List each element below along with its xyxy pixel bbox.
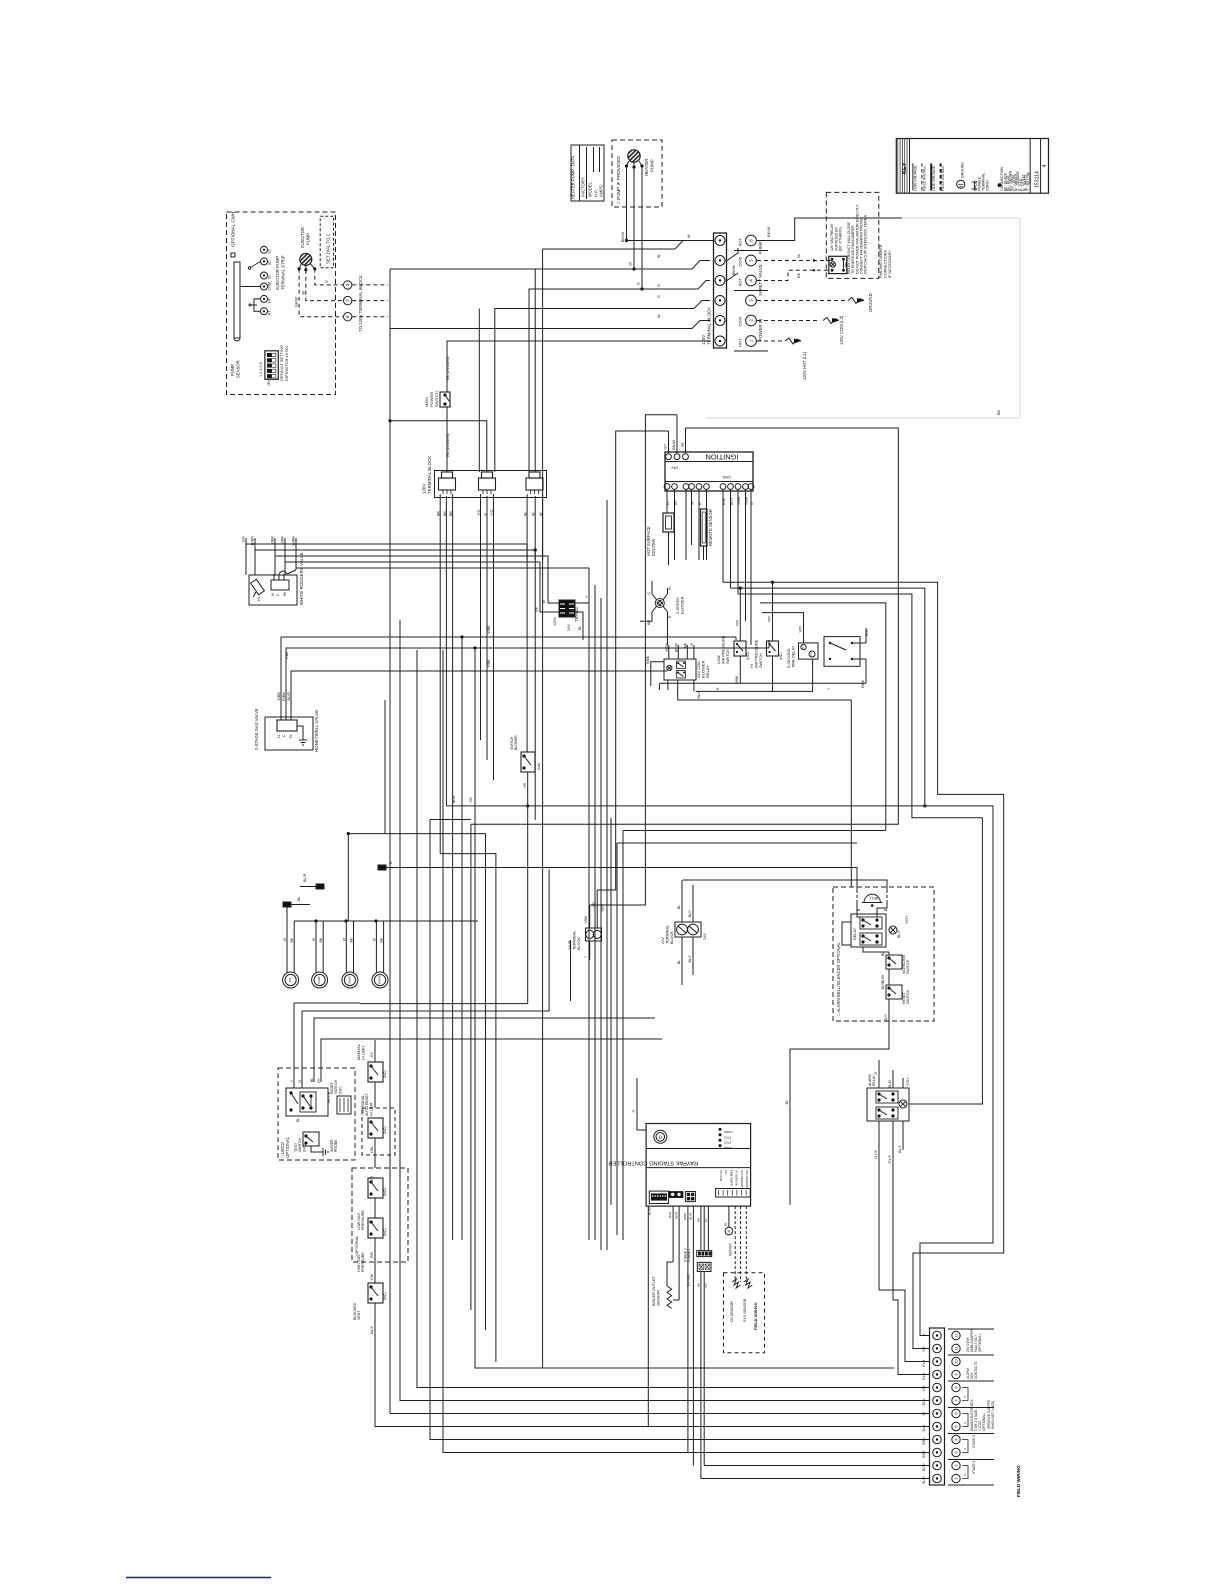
- svg-text:120V COM (L2): 120V COM (L2): [839, 315, 844, 345]
- svg-text:HT: HT: [268, 310, 272, 316]
- svg-text:BL/V: BL/V: [922, 1398, 926, 1406]
- svg-text:O: O: [963, 1396, 967, 1398]
- svg-text:GY: GY: [704, 1283, 708, 1287]
- stage plug 2: [697, 1262, 711, 1271]
- svg-text:BL: BL: [297, 896, 301, 901]
- 120V terminal block strip: [714, 233, 727, 348]
- svg-text:BL/Y: BL/Y: [697, 690, 701, 698]
- ignition bottom wires: [666, 489, 668, 513]
- svg-text:PROBE: PROBE: [334, 1139, 338, 1152]
- svg-text:120V: 120V: [422, 484, 427, 494]
- svg-text:□ ALARM BELL/SILENCER OPTIONAL: □ ALARM BELL/SILENCER OPTIONAL: [836, 942, 841, 1016]
- wire alarm box BL down run: [790, 1021, 889, 1205]
- controller dip switch: [649, 1191, 668, 1203]
- wire safety valve BK/W jumper: [727, 248, 738, 261]
- svg-text:GY: GY: [370, 1051, 374, 1057]
- svg-text:BL/Y: BL/Y: [688, 909, 692, 917]
- stage plug wires upper: [700, 1206, 702, 1251]
- field dashed wire terminal 5 to relay: [757, 260, 832, 262]
- svg-text:CONN: CONN: [986, 180, 990, 191]
- CWH terminal strip circles: [261, 246, 268, 253]
- svg-text:BL: BL: [785, 1100, 789, 1104]
- LWCO input wires: [293, 1068, 295, 1088]
- svg-text:SENSOR: SENSOR: [657, 1290, 661, 1306]
- svg-text:BELL: BELL: [869, 896, 878, 900]
- controller left wire: [637, 1078, 646, 1130]
- svg-text:FAN AND DAMPER: FAN AND DAMPER: [879, 244, 883, 278]
- svg-text:R: R: [698, 502, 702, 505]
- boiler sensor wires: [672, 1206, 674, 1262]
- svg-text:LINE VOLTAGE: LINE VOLTAGE: [932, 165, 936, 191]
- svg-text:KEY: KEY: [902, 162, 908, 174]
- svg-text:V/BR: V/BR: [737, 496, 741, 505]
- wire blocked vent to terminal 5: [375, 1303, 930, 1427]
- field terminal strip: [930, 1328, 945, 1485]
- svg-text:1 2 3 4 5: 1 2 3 4 5: [259, 362, 263, 377]
- svg-text:Y/BK: Y/BK: [285, 651, 289, 660]
- svg-text:REMOTE SENSOR: REMOTE SENSOR: [708, 509, 713, 546]
- time delay wires: [762, 613, 804, 643]
- svg-text:BL: BL: [677, 960, 681, 964]
- svg-text:Y/GY: Y/GY: [601, 903, 605, 912]
- low gas pressure switch: [368, 1178, 383, 1198]
- plug connector: [439, 478, 456, 490]
- wire to terminal 2: [704, 1465, 929, 1467]
- svg-text:INJECTOR PUMP: INJECTOR PUMP: [275, 256, 280, 290]
- svg-text:TERMINAL: TERMINAL: [572, 931, 576, 950]
- svg-text:W: W: [301, 291, 305, 295]
- 5-second time delay box: [799, 643, 819, 659]
- svg-text:COM: COM: [738, 317, 743, 326]
- svg-text:Y/GY: Y/GY: [905, 915, 909, 924]
- svg-text:V/BK: V/BK: [281, 536, 285, 545]
- svg-text:R/R: R/R: [370, 1251, 374, 1257]
- time delay COM wire: [773, 659, 813, 691]
- wire pump BKW to terminal6 line: [625, 240, 714, 242]
- silencing switch: [886, 955, 902, 969]
- left tall verticals: [384, 700, 386, 834]
- svg-text:3: 3: [749, 299, 754, 302]
- svg-text:SWITCH: SWITCH: [434, 391, 439, 407]
- svg-text:HSI: HSI: [288, 978, 292, 983]
- svg-text:BL/W: BL/W: [922, 1464, 926, 1472]
- terminal 2 strip circle: [715, 316, 725, 326]
- svg-text:V/BK: V/BK: [487, 625, 491, 634]
- svg-text:G: G: [636, 282, 641, 285]
- svg-text:BL: BL: [681, 442, 685, 447]
- svg-text:BK: BK: [380, 937, 384, 942]
- svg-text:W: W: [691, 501, 695, 505]
- svg-text:DATA: DATA: [571, 155, 576, 166]
- light SPARE: [372, 972, 388, 988]
- alarm relay box: [867, 1088, 909, 1121]
- svg-text:O: O: [963, 1448, 967, 1450]
- svg-text:OPTIONAL: OPTIONAL: [285, 1136, 290, 1158]
- O4 sensor squiggle: [732, 1279, 741, 1288]
- svg-text:STAGE 2: STAGE 2: [972, 1435, 976, 1448]
- LWCO test switch: [303, 1132, 319, 1146]
- relay contact A: [677, 661, 686, 669]
- ignition top wires: [668, 431, 670, 453]
- relay contact B: [677, 671, 686, 679]
- 2-speed blower motor: [655, 599, 664, 608]
- svg-text:BK: BK: [443, 510, 447, 516]
- wire trunk Y637: [299, 636, 736, 638]
- svg-text:HONEYWELL VALVE: HONEYWELL VALVE: [314, 710, 319, 752]
- svg-text:FIELD INSTALL: FIELD INSTALL: [923, 166, 927, 192]
- wire cluster verticals: [542, 249, 544, 1368]
- wire trunk Y648: [318, 647, 769, 649]
- svg-text:G: G: [657, 284, 661, 287]
- wire X390 long trunk: [389, 329, 391, 1414]
- wire cluster verticals mid: [588, 568, 590, 1240]
- svg-text:R/W: R/W: [865, 629, 869, 636]
- svg-text:6: 6: [345, 315, 350, 318]
- drawing number cell: [1029, 139, 1031, 194]
- valve terminal strip: [271, 580, 289, 590]
- wire G loop riser 885: [760, 603, 886, 831]
- svg-text:R/BK: R/BK: [683, 1213, 687, 1220]
- wire alarm contacts to terminal 10: [879, 1160, 930, 1362]
- svg-text:10: 10: [954, 1359, 959, 1364]
- wire ignition BNW staircase: [590, 415, 677, 905]
- svg-text:HI: HI: [257, 597, 261, 601]
- field dashed wire terminal 2 com: [757, 320, 820, 322]
- M heater circle: [725, 1227, 733, 1235]
- svg-text:SWITCH: SWITCH: [726, 649, 730, 664]
- strip terminal 1: [933, 1474, 942, 1483]
- svg-text:(NO): (NO): [746, 652, 750, 660]
- auto reset hi limit dashed box: [362, 1108, 395, 1155]
- svg-text:(NC): (NC): [779, 652, 783, 660]
- svg-text:COM: COM: [268, 282, 272, 290]
- svg-text:HOT: HOT: [738, 238, 743, 247]
- svg-text:BK: BK: [697, 1218, 701, 1222]
- svg-text:PUMP: PUMP: [650, 159, 655, 172]
- svg-text:24V: 24V: [567, 624, 571, 631]
- svg-text:GY/Y: GY/Y: [922, 1372, 926, 1380]
- svg-text:W: W: [532, 512, 536, 516]
- jumper arcs: [962, 1388, 968, 1401]
- svg-text:(NO): (NO): [537, 763, 541, 770]
- svg-text:Y/GY: Y/GY: [906, 1077, 910, 1086]
- svg-text:HI LIMIT: HI LIMIT: [361, 1045, 365, 1060]
- wire long H806 bus: [446, 806, 993, 1336]
- svg-text:STG1: STG1: [724, 1135, 732, 1139]
- wire right loop RL2 to terminal 12: [731, 588, 925, 806]
- pump sensor probe: [234, 262, 240, 338]
- svg-text:V/G: V/G: [242, 536, 246, 543]
- svg-text:W: W: [524, 512, 528, 516]
- svg-text:COM: COM: [738, 257, 743, 266]
- svg-text:BL: BL: [310, 1078, 314, 1082]
- relay bottom outputs: [667, 680, 669, 690]
- svg-text:STG2: STG2: [724, 1141, 732, 1145]
- set dial to 1 dashed box: [320, 216, 333, 268]
- svg-text:M: M: [727, 1229, 730, 1233]
- wire to terminal 4: [430, 820, 930, 1440]
- trans primary wires: [548, 602, 559, 604]
- terminal 4 strip circle: [715, 276, 725, 286]
- svg-text:RELAY: RELAY: [853, 927, 857, 940]
- LWCO reset switch: [337, 1096, 351, 1114]
- 24 VAC stage wires: [687, 1206, 689, 1452]
- field dashed wire terminal 3 ground: [757, 300, 845, 302]
- wire faint top right loop: [706, 218, 1020, 418]
- svg-text:BK: BK: [449, 510, 453, 516]
- wire terminal 6 to relay feed: [757, 218, 902, 241]
- svg-text:FIELD INSTALL: FIELD INSTALL: [941, 166, 945, 192]
- svg-text:GROUND: GROUND: [961, 162, 965, 178]
- svg-text:Y/G: Y/G: [469, 797, 473, 803]
- O4 SYS sensor dashed box: [724, 1273, 765, 1353]
- blower wires: [651, 581, 653, 594]
- svg-text:HI LIMIT: HI LIMIT: [369, 1101, 373, 1116]
- wire H833 corner down: [485, 834, 487, 1330]
- svg-text:24V: 24V: [703, 933, 707, 940]
- svg-text:153114: 153114: [1035, 171, 1041, 188]
- svg-text:FACTORY: FACTORY: [581, 177, 586, 197]
- svg-text:BK/R: BK/R: [675, 1211, 679, 1219]
- svg-text:V/BK: V/BK: [271, 536, 275, 545]
- svg-text:(OPTIONAL): (OPTIONAL): [982, 1413, 986, 1431]
- wire terminal6 staircase: [543, 241, 710, 250]
- wire X390 to terminal 6: [390, 1413, 930, 1415]
- light risers: [286, 907, 288, 940]
- svg-text:O: O: [963, 1474, 967, 1476]
- svg-text:GND: GND: [722, 475, 731, 479]
- 24VR terminal block: [586, 928, 602, 941]
- svg-text:□ PUMP IF PROVIDED: □ PUMP IF PROVIDED: [616, 155, 621, 204]
- raypak logo: [654, 1130, 667, 1143]
- svg-text:SWITCHES AT INTERLOCK TERMS.: SWITCHES AT INTERLOCK TERMS.: [864, 214, 868, 274]
- wire trunk Y671: [326, 670, 667, 672]
- strip terminal 12: [933, 1331, 942, 1340]
- svg-text:SWITCH: SWITCH: [906, 959, 910, 974]
- wire gas valve feeds: [281, 637, 299, 694]
- svg-text:BK: BK: [319, 937, 323, 942]
- svg-text:O: O: [666, 502, 670, 505]
- blue underline bottom left: [126, 1577, 271, 1579]
- svg-text:GY: GY: [317, 1077, 321, 1083]
- LWCO relay box: [286, 1088, 328, 1116]
- strip terminal 3: [933, 1448, 942, 1457]
- svg-text:BL/Y: BL/Y: [884, 1013, 888, 1021]
- svg-text:HI: HI: [750, 664, 754, 668]
- svg-text:R/BK: R/BK: [922, 1437, 926, 1445]
- svg-text:WHEN NOT USED): WHEN NOT USED): [991, 1401, 995, 1429]
- ignition module box: [665, 452, 753, 491]
- svg-text:HT: HT: [268, 297, 272, 303]
- CWH com wire to probe: [240, 286, 261, 288]
- svg-text:G: G: [750, 502, 754, 505]
- wire main switch to block: [446, 407, 448, 472]
- svg-text:IGNITER: IGNITER: [651, 539, 656, 556]
- alarm bell silencer dashed box: [833, 887, 934, 1021]
- svg-text:(OPTIONAL): (OPTIONAL): [978, 1334, 982, 1352]
- svg-text:W: W: [657, 254, 661, 258]
- remote sensor: [701, 509, 708, 546]
- svg-text:(NC): (NC): [383, 1292, 387, 1300]
- svg-text:R/V: R/V: [768, 615, 772, 621]
- stage plug 1: [697, 1251, 712, 1257]
- svg-text:O4 SENSOR: O4 SENSOR: [735, 1170, 739, 1186]
- trans secondary wires: [575, 585, 589, 603]
- svg-text:GY/Y: GY/Y: [874, 1149, 878, 1158]
- svg-text:BLOWER: BLOWER: [680, 597, 685, 614]
- strip terminal 8: [933, 1383, 942, 1392]
- svg-text:BL: BL: [677, 905, 681, 909]
- svg-text:AIR PRESSURE: AIR PRESSURE: [721, 635, 725, 664]
- hi air pressure switch: [767, 641, 779, 656]
- svg-text:(BY OTHERS): (BY OTHERS): [839, 227, 843, 251]
- svg-text:HI: HI: [289, 735, 293, 738]
- svg-text:BL/R: BL/R: [922, 1476, 926, 1484]
- wire H824 BL return corner: [470, 824, 472, 1310]
- svg-text:PRESSURE: PRESSURE: [361, 1210, 365, 1230]
- fuse 2: [316, 884, 324, 889]
- svg-text:G: G: [298, 1080, 302, 1083]
- svg-text:BL/R: BL/R: [689, 1212, 693, 1220]
- svg-text:BK: BK: [796, 272, 801, 278]
- svg-text:BK: BK: [674, 500, 678, 505]
- svg-text:MANUAL: MANUAL: [357, 1044, 361, 1060]
- svg-text:(NC): (NC): [383, 1228, 387, 1236]
- labeled terminal circles: [746, 235, 757, 246]
- svg-text:BN: BN: [647, 619, 651, 624]
- legend ground symbol: [957, 180, 965, 188]
- 120V terminal block connectors: [435, 471, 547, 498]
- wire X549 X570 risers: [548, 870, 550, 1012]
- svg-text:2: 2: [749, 319, 754, 322]
- boiler outlet sensor: [667, 1286, 672, 1308]
- svg-text:R/W: R/W: [668, 1212, 672, 1218]
- svg-text:GROUND: GROUND: [868, 293, 873, 312]
- low air pressure switch: [734, 641, 746, 656]
- wire terminal2 staircase long: [390, 321, 710, 329]
- wire fuse R run to bell: [400, 868, 857, 891]
- svg-text:BK/W: BK/W: [620, 232, 625, 242]
- wire X462 X475 runs: [461, 637, 463, 1240]
- wire terminal5 staircase: [390, 261, 710, 270]
- svg-text:R: R: [389, 861, 393, 864]
- svg-text:TERMINAL BLOCK: TERMINAL BLOCK: [707, 307, 712, 345]
- wire branch to middle plug: [390, 421, 487, 472]
- wire to terminal 7: [400, 690, 930, 1401]
- svg-text:BLOCK: BLOCK: [577, 937, 581, 950]
- svg-text:HOT: HOT: [738, 278, 743, 287]
- svg-text:(NC): (NC): [338, 1086, 342, 1094]
- svg-text:HEATER PUMP: HEATER PUMP: [571, 169, 576, 199]
- svg-text:GY: GY: [704, 1218, 708, 1222]
- svg-text:BL: BL: [296, 1118, 300, 1122]
- svg-text:S3: S3: [268, 249, 272, 253]
- svg-text:Y/R: Y/R: [523, 782, 527, 788]
- svg-text:WHITE-RODGERS VALVE: WHITE-RODGERS VALVE: [299, 552, 304, 605]
- svg-text:24 VAC: 24 VAC: [686, 1274, 690, 1287]
- svg-text:V/BK: V/BK: [277, 692, 281, 701]
- svg-text:R/W: R/W: [722, 497, 726, 505]
- svg-text:HI: HI: [668, 587, 672, 590]
- valve coil symbol: [251, 579, 265, 594]
- wire to terminal 8: [417, 693, 930, 1388]
- svg-text:Y/G: Y/G: [490, 509, 494, 516]
- light HSI: [283, 972, 299, 988]
- wire terminal3 staircase: [495, 301, 710, 473]
- svg-text:W: W: [687, 234, 691, 238]
- svg-text:Y/G: Y/G: [477, 509, 481, 516]
- main power switch: [440, 392, 450, 407]
- auto reset hi limit switch: [368, 1118, 383, 1138]
- svg-text:BK: BK: [697, 1283, 701, 1287]
- wire ignition GY staircase: [597, 431, 668, 890]
- svg-text:Y/R: Y/R: [370, 1175, 374, 1181]
- strip terminal 4: [933, 1435, 942, 1444]
- wire WR valve runs right: [246, 538, 527, 544]
- valve wires up: [245, 538, 247, 570]
- svg-text:BL: BL: [578, 626, 582, 630]
- bell symbol: [864, 894, 880, 902]
- svg-text:5-SECOND: 5-SECOND: [787, 648, 791, 668]
- svg-text:BK: BK: [437, 510, 441, 516]
- controller bottom wires BLW: [647, 1206, 649, 1426]
- svg-text:RAYPAK STAGING CONTROLLER: RAYPAK STAGING CONTROLLER: [609, 1160, 698, 1166]
- svg-text:BK/W: BK/W: [295, 297, 299, 307]
- svg-text:BL/Y: BL/Y: [922, 1424, 926, 1432]
- relay dashed box 120VAC: [826, 192, 879, 278]
- svg-text:BOILER OUTLET: BOILER OUTLET: [652, 1275, 656, 1306]
- switch riser wires RV: [739, 588, 741, 641]
- ignition bottom terminals: [664, 484, 670, 490]
- svg-text:BL/Y: BL/Y: [897, 930, 901, 938]
- light PUMP: [312, 972, 328, 988]
- wire alarm box left feeds: [610, 818, 612, 1205]
- svg-text:SYS SENSOR: SYS SENSOR: [743, 1298, 747, 1322]
- svg-text:BL/R: BL/R: [303, 873, 307, 882]
- wire to terminal 1: [701, 1478, 930, 1480]
- heater pump dashed box: [612, 140, 662, 207]
- svg-text:HEATER: HEATER: [729, 1243, 733, 1256]
- wire into manual hi limit: [374, 1040, 376, 1062]
- svg-text:(NO): (NO): [383, 1188, 387, 1196]
- wire ignition BL to right loop: [471, 428, 898, 824]
- svg-text:TIME DELAY: TIME DELAY: [791, 645, 795, 668]
- svg-text:W: W: [628, 262, 633, 266]
- field dashed wire terminal 1 hot: [757, 340, 782, 342]
- relay coil and contacts: [829, 256, 847, 273]
- svg-text:TERMINAL STRIP: TERMINAL STRIP: [281, 255, 286, 290]
- svg-text:4: 4: [1042, 164, 1048, 167]
- controller pots: [669, 1192, 683, 1198]
- svg-text:BL/Y: BL/Y: [898, 1144, 902, 1152]
- svg-text:ALRM: ALRM: [723, 1146, 731, 1150]
- svg-text:HEATER: HEATER: [644, 159, 649, 176]
- ignition top terminals: [666, 454, 672, 460]
- terminal 6 strip circle: [715, 236, 725, 246]
- svg-text:OPTIONAL CWH: OPTIONAL CWH: [231, 212, 236, 247]
- svg-text:BK [14 AWG]: BK [14 AWG]: [445, 357, 450, 380]
- svg-text:5: 5: [749, 259, 754, 262]
- svg-text:S1: S1: [268, 275, 272, 279]
- svg-text:SPARE: SPARE: [378, 975, 382, 984]
- svg-text:R/V: R/V: [735, 619, 739, 625]
- svg-text:R/BK: R/BK: [922, 1450, 926, 1458]
- wire right loop RL3 to alarm coil: [738, 594, 982, 1104]
- svg-text:R/BK: R/BK: [282, 692, 286, 701]
- svg-text:BK [14 AWG]: BK [14 AWG]: [445, 434, 450, 457]
- svg-text:SWITCH: SWITCH: [759, 653, 763, 668]
- indicator light bus: [294, 920, 478, 922]
